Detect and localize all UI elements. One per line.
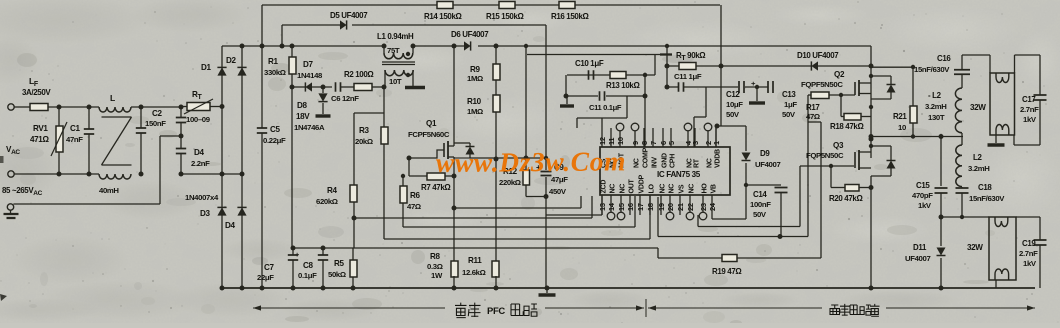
node <box>260 286 265 291</box>
diode D7 <box>297 60 323 92</box>
capacitor C9 <box>536 163 568 196</box>
wire <box>322 87 324 114</box>
wire R19 row <box>658 257 821 259</box>
wire ground bus <box>222 287 1035 289</box>
capacitor C11b 1uF <box>674 72 702 92</box>
node <box>665 85 670 90</box>
inductor L1 primary 75T <box>377 32 414 59</box>
svg-text:R10: R10 <box>467 97 482 106</box>
svg-text:NC: NC <box>689 184 696 194</box>
wire <box>567 74 655 76</box>
svg-text:VS: VS <box>679 184 686 193</box>
svg-text:16: 16 <box>626 203 635 211</box>
svg-text:12.6kΩ: 12.6kΩ <box>462 268 486 277</box>
wire <box>495 276 497 288</box>
zener D8 <box>294 93 328 132</box>
wire <box>566 75 645 96</box>
wire <box>409 175 454 177</box>
thermistor RT <box>184 90 213 124</box>
svg-text:20: 20 <box>666 203 675 211</box>
node <box>260 44 295 49</box>
svg-text:620kΩ: 620kΩ <box>316 197 338 206</box>
svg-text:15nF/630V: 15nF/630V <box>914 65 950 74</box>
svg-text:75T: 75T <box>387 46 400 55</box>
svg-text:R11: R11 <box>468 256 482 265</box>
lamp tube 2 32W <box>967 217 1016 280</box>
fuse LF <box>22 76 51 111</box>
svg-text:32W: 32W <box>967 243 983 252</box>
node <box>321 85 326 90</box>
svg-text:C6 12nF: C6 12nF <box>331 94 359 103</box>
svg-text:R3: R3 <box>359 126 369 135</box>
node <box>665 44 670 69</box>
diode D11 <box>905 217 946 288</box>
node <box>494 44 499 49</box>
svg-text:10μF: 10μF <box>726 100 743 109</box>
svg-text:1MΩ: 1MΩ <box>467 107 483 116</box>
node <box>139 105 184 177</box>
svg-text:R6: R6 <box>410 191 420 200</box>
wire pin12 row <box>577 96 627 128</box>
svg-text:D4: D4 <box>194 148 204 157</box>
svg-text:10T: 10T <box>389 77 402 86</box>
node <box>544 156 548 160</box>
svg-text:470pF: 470pF <box>912 191 933 200</box>
resistor R7 <box>421 173 451 192</box>
svg-text:C14: C14 <box>753 190 767 199</box>
diode D3 <box>200 207 227 218</box>
svg-text:R13 10kΩ: R13 10kΩ <box>606 81 640 90</box>
svg-text:R7 47kΩ: R7 47kΩ <box>421 183 451 192</box>
svg-text:471Ω: 471Ω <box>30 135 49 144</box>
svg-text:R2 100Ω: R2 100Ω <box>344 70 374 79</box>
wire <box>870 84 872 158</box>
svg-text:FQPF5N50C: FQPF5N50C <box>801 80 843 89</box>
wire <box>808 122 821 258</box>
wire <box>995 280 997 288</box>
resistor R10 <box>467 95 500 116</box>
wire <box>454 196 581 208</box>
svg-text:50V: 50V <box>753 210 767 219</box>
dimension arrow ballast section <box>648 305 1035 310</box>
svg-text:R5: R5 <box>334 259 344 268</box>
resistor R11 <box>462 256 499 277</box>
node <box>719 64 724 69</box>
resistor R16 <box>551 2 589 22</box>
diode D4 <box>225 207 247 230</box>
svg-text:PFC: PFC <box>487 306 505 317</box>
svg-text:- L2: - L2 <box>928 91 942 100</box>
artifact <box>0 156 7 301</box>
svg-text:47Ω: 47Ω <box>407 202 421 211</box>
node <box>291 246 296 291</box>
svg-text:19: 19 <box>657 203 666 211</box>
node <box>869 105 873 109</box>
ground <box>405 86 425 89</box>
node AC input terminal bottom <box>8 171 14 177</box>
wire <box>180 138 182 174</box>
svg-text:www.Dz3w.Com: www.Dz3w.Com <box>436 145 626 178</box>
svg-text:NC: NC <box>669 184 676 194</box>
svg-text:C2: C2 <box>152 109 162 118</box>
capacitor C4 2.2nF <box>176 148 210 168</box>
svg-text:GND: GND <box>662 153 669 168</box>
wire <box>181 106 222 108</box>
svg-text:11: 11 <box>607 138 616 145</box>
wire <box>403 196 635 227</box>
svg-text:C18: C18 <box>978 183 992 192</box>
svg-text:COMP: COMP <box>643 147 650 168</box>
svg-text:1N4746A: 1N4746A <box>294 123 325 132</box>
svg-text:C15: C15 <box>916 181 930 190</box>
svg-text:VB: VB <box>711 184 718 193</box>
capacitor C16 <box>914 54 970 74</box>
wire pin13 frame <box>527 55 672 216</box>
svg-text:NC: NC <box>660 184 667 194</box>
svg-text:R21: R21 <box>893 112 907 121</box>
wire <box>526 46 546 197</box>
wire <box>745 86 768 88</box>
wire bridge left rail <box>221 46 223 288</box>
wire half-bridge rail <box>870 46 872 84</box>
svg-text:D1: D1 <box>201 63 211 72</box>
IC bottom pins <box>598 174 718 219</box>
node <box>139 105 144 110</box>
svg-text:L1 0.94mH: L1 0.94mH <box>377 32 414 41</box>
node <box>524 156 529 161</box>
wire <box>48 106 99 108</box>
wire <box>13 136 181 204</box>
svg-text:FQP5N50C: FQP5N50C <box>806 151 844 160</box>
resistor R13 <box>606 72 640 91</box>
wire half-bridge node <box>871 136 963 138</box>
svg-text:INV: INV <box>652 157 659 168</box>
svg-text:17: 17 <box>636 203 645 211</box>
wire <box>807 95 809 237</box>
node <box>643 73 647 77</box>
wire C16 row <box>871 66 913 68</box>
wire <box>383 87 385 239</box>
svg-text:18V: 18V <box>296 112 310 121</box>
wire Q1 drain <box>453 46 455 140</box>
transistor Q1 FCPF5N60C <box>408 119 454 163</box>
wire <box>666 46 668 66</box>
svg-text:D8: D8 <box>297 101 307 110</box>
svg-text:47Ω: 47Ω <box>806 112 820 121</box>
svg-text:3A/250V: 3A/250V <box>22 88 51 97</box>
svg-text:2.7nF: 2.7nF <box>1019 249 1038 258</box>
svg-text:D6 UF4007: D6 UF4007 <box>451 30 489 39</box>
svg-text:8: 8 <box>640 141 649 145</box>
resistor R8 <box>427 252 458 280</box>
svg-text:OUT: OUT <box>629 179 636 194</box>
thermistor RT2 90k <box>676 51 706 62</box>
diode Q2 body diode <box>869 74 896 99</box>
svg-text:C13: C13 <box>782 90 796 99</box>
svg-text:450V: 450V <box>549 187 567 196</box>
svg-text:10: 10 <box>616 137 625 145</box>
ground <box>560 96 574 106</box>
svg-text:1kV: 1kV <box>1023 115 1037 124</box>
wire <box>808 94 855 96</box>
resistor R1 <box>264 57 296 77</box>
svg-text:NC: NC <box>707 158 714 168</box>
svg-text:2.7nF: 2.7nF <box>1020 105 1039 114</box>
svg-text:220kΩ: 220kΩ <box>499 178 521 187</box>
svg-text:18: 18 <box>646 203 655 211</box>
resistor R15 <box>486 2 524 22</box>
svg-text:VDDP: VDDP <box>639 174 646 193</box>
svg-text:R19 47Ω: R19 47Ω <box>712 267 742 276</box>
dimension arrow PFC section <box>253 299 646 317</box>
wire <box>495 112 497 261</box>
svg-text:10: 10 <box>898 123 906 132</box>
ground lamp1 <box>988 135 1005 145</box>
node <box>939 286 944 291</box>
svg-text:Q2: Q2 <box>834 70 845 79</box>
resistor R4 <box>316 185 357 206</box>
capacitor C12 <box>726 79 756 119</box>
ground earth terminal <box>4 204 19 218</box>
svg-text:C16: C16 <box>937 54 951 63</box>
svg-text:C11 0.1μF: C11 0.1μF <box>589 103 622 112</box>
svg-text:D3: D3 <box>200 209 210 218</box>
svg-text:NC: NC <box>620 184 627 194</box>
label ballast section <box>830 304 880 316</box>
resistor R2 <box>344 70 374 91</box>
node <box>524 44 549 199</box>
resistor R5 <box>328 248 357 288</box>
node <box>407 156 412 161</box>
wire <box>261 5 263 46</box>
wire D5 bypass rail <box>282 25 546 46</box>
wire pin24 <box>712 215 746 219</box>
wire vdd row <box>716 125 746 127</box>
capacitor C10 <box>575 59 604 80</box>
inductor L1 secondary 10T <box>385 70 413 87</box>
svg-text:130T: 130T <box>928 113 945 122</box>
svg-text:14: 14 <box>607 202 616 211</box>
transistor Q2 FQPF5N50C <box>801 70 871 96</box>
svg-text:5: 5 <box>667 141 676 145</box>
wire <box>354 113 384 185</box>
node <box>290 85 295 90</box>
resistor R18 <box>830 95 871 131</box>
svg-text:1MΩ: 1MΩ <box>467 74 483 83</box>
capacitor C1 <box>66 124 94 144</box>
node <box>715 124 720 129</box>
node <box>452 174 457 179</box>
wire <box>384 196 650 239</box>
node <box>382 85 387 90</box>
svg-text:FCPF5N60C: FCPF5N60C <box>408 130 450 139</box>
node <box>452 286 457 291</box>
capacitor C6 <box>331 82 359 103</box>
svg-text:R16 150kΩ: R16 150kΩ <box>551 12 589 21</box>
node <box>939 215 965 220</box>
svg-text:1μF: 1μF <box>784 100 797 109</box>
svg-text:1kV: 1kV <box>918 201 932 210</box>
wire <box>684 87 706 147</box>
node <box>869 134 944 139</box>
wire <box>495 46 497 95</box>
svg-text:ZCD: ZCD <box>601 180 608 194</box>
svg-text:NC: NC <box>687 158 694 168</box>
capacitor C7 <box>257 248 299 288</box>
svg-text:2.2nF: 2.2nF <box>191 159 210 168</box>
label input range <box>2 186 43 197</box>
diode D1 <box>201 63 227 76</box>
svg-text:R18 47kΩ: R18 47kΩ <box>830 122 864 131</box>
wire <box>180 107 182 134</box>
svg-text:1kV: 1kV <box>1023 259 1037 268</box>
svg-text:R8: R8 <box>430 252 440 261</box>
node <box>494 157 499 162</box>
wire <box>292 248 658 258</box>
wire <box>941 216 989 218</box>
node <box>401 174 405 178</box>
svg-text:RT: RT <box>694 158 701 168</box>
wire <box>667 66 678 87</box>
ground <box>749 85 765 103</box>
svg-text:D11: D11 <box>913 243 927 252</box>
svg-text:40mH: 40mH <box>99 186 119 195</box>
svg-text:1W: 1W <box>431 271 443 280</box>
svg-text:C11 1μF: C11 1μF <box>674 72 702 81</box>
resistor R21 <box>893 67 917 137</box>
wire <box>402 176 404 227</box>
inductor L1 core <box>382 62 415 65</box>
svg-text:L: L <box>110 93 115 103</box>
svg-text:R9: R9 <box>470 65 480 74</box>
wire <box>140 107 142 174</box>
svg-text:VDDB: VDDB <box>715 149 722 168</box>
wire <box>870 176 872 288</box>
capacitor C2 <box>136 109 166 133</box>
wire <box>706 86 738 88</box>
watermark <box>436 145 626 178</box>
diode D6 <box>451 30 489 51</box>
wire <box>291 87 293 248</box>
svg-text:D9: D9 <box>760 149 770 158</box>
node <box>643 73 647 77</box>
node <box>869 64 874 69</box>
node <box>911 65 915 69</box>
svg-text:C1: C1 <box>70 124 80 133</box>
wire <box>292 86 332 88</box>
svg-text:7: 7 <box>649 141 658 145</box>
node <box>869 137 874 142</box>
wire <box>372 86 384 88</box>
svg-text:50kΩ: 50kΩ <box>328 270 346 279</box>
svg-text:Q1: Q1 <box>426 119 437 128</box>
svg-text:R14 150kΩ: R14 150kΩ <box>424 12 462 21</box>
svg-text:R17: R17 <box>806 103 820 112</box>
inductor L common-mode choke <box>99 93 132 195</box>
wire <box>721 65 871 67</box>
svg-text:D2: D2 <box>226 56 236 65</box>
resistor R19 <box>712 255 742 277</box>
svg-text:50V: 50V <box>726 110 740 119</box>
svg-text:D4: D4 <box>225 221 235 230</box>
node <box>382 44 416 49</box>
capacitor C15 <box>912 137 948 218</box>
svg-text:20kΩ: 20kΩ <box>355 137 373 146</box>
node <box>57 105 62 177</box>
svg-text:3.2mH: 3.2mH <box>925 102 947 111</box>
svg-text:R1: R1 <box>268 57 278 66</box>
wire main boost bus <box>222 45 871 47</box>
svg-text:L2: L2 <box>973 153 982 162</box>
wire <box>88 107 90 174</box>
diode Q1 body diode <box>454 143 475 158</box>
IC top pins <box>598 123 722 168</box>
node <box>869 286 874 291</box>
svg-text:0.22μF: 0.22μF <box>263 136 286 145</box>
svg-text:HO: HO <box>702 183 709 194</box>
svg-text:0.3Ω: 0.3Ω <box>427 262 443 271</box>
transistor Q3 FQPF5N50C <box>806 141 871 170</box>
node <box>829 164 874 190</box>
svg-text:IC FAN75 35: IC FAN75 35 <box>657 170 701 179</box>
resistor R3 <box>355 126 388 146</box>
svg-text:1N4007x4: 1N4007x4 <box>185 193 219 202</box>
resistor RT2 body <box>679 63 696 70</box>
wire top feedback rail <box>262 4 720 6</box>
svg-text:22μF: 22μF <box>257 273 274 282</box>
ground main <box>539 286 556 296</box>
wire <box>291 46 293 87</box>
wire stub <box>660 53 672 55</box>
svg-text:0.1μF: 0.1μF <box>298 271 317 280</box>
wire <box>961 55 963 88</box>
node <box>744 183 748 187</box>
resistor R20 <box>829 166 871 203</box>
wire Q1 source <box>453 163 455 261</box>
svg-text:21: 21 <box>676 203 685 211</box>
capacitor C18 <box>956 183 1006 217</box>
resistor R12 <box>499 167 530 187</box>
diode D10 <box>797 51 839 71</box>
svg-text:C10 1μF: C10 1μF <box>575 59 604 68</box>
svg-text:C17: C17 <box>1022 95 1036 104</box>
wire <box>962 55 1040 73</box>
node <box>839 93 843 97</box>
node <box>179 134 184 139</box>
svg-text:15nF/630V: 15nF/630V <box>969 194 1005 203</box>
node AC input terminal top <box>8 104 14 110</box>
svg-text:9: 9 <box>631 141 640 145</box>
svg-text:100–09: 100–09 <box>186 115 211 124</box>
wire mid rail <box>545 25 547 288</box>
svg-text:NC: NC <box>610 184 617 194</box>
svg-text:24: 24 <box>708 202 717 211</box>
svg-text:C19: C19 <box>1022 239 1036 248</box>
svg-text:UF4007: UF4007 <box>905 254 930 263</box>
svg-text:CPH: CPH <box>670 154 677 168</box>
wire bridge right rail <box>241 46 243 288</box>
wire <box>353 202 355 248</box>
node <box>352 216 357 221</box>
wire <box>58 107 60 174</box>
svg-text:R15 150kΩ: R15 150kΩ <box>486 12 524 21</box>
svg-text:15: 15 <box>617 203 626 211</box>
capacitor C8 <box>298 248 328 288</box>
capacitor C19 <box>1016 217 1047 288</box>
wire HO row <box>698 166 800 227</box>
wire <box>644 96 646 147</box>
wire <box>408 158 410 176</box>
